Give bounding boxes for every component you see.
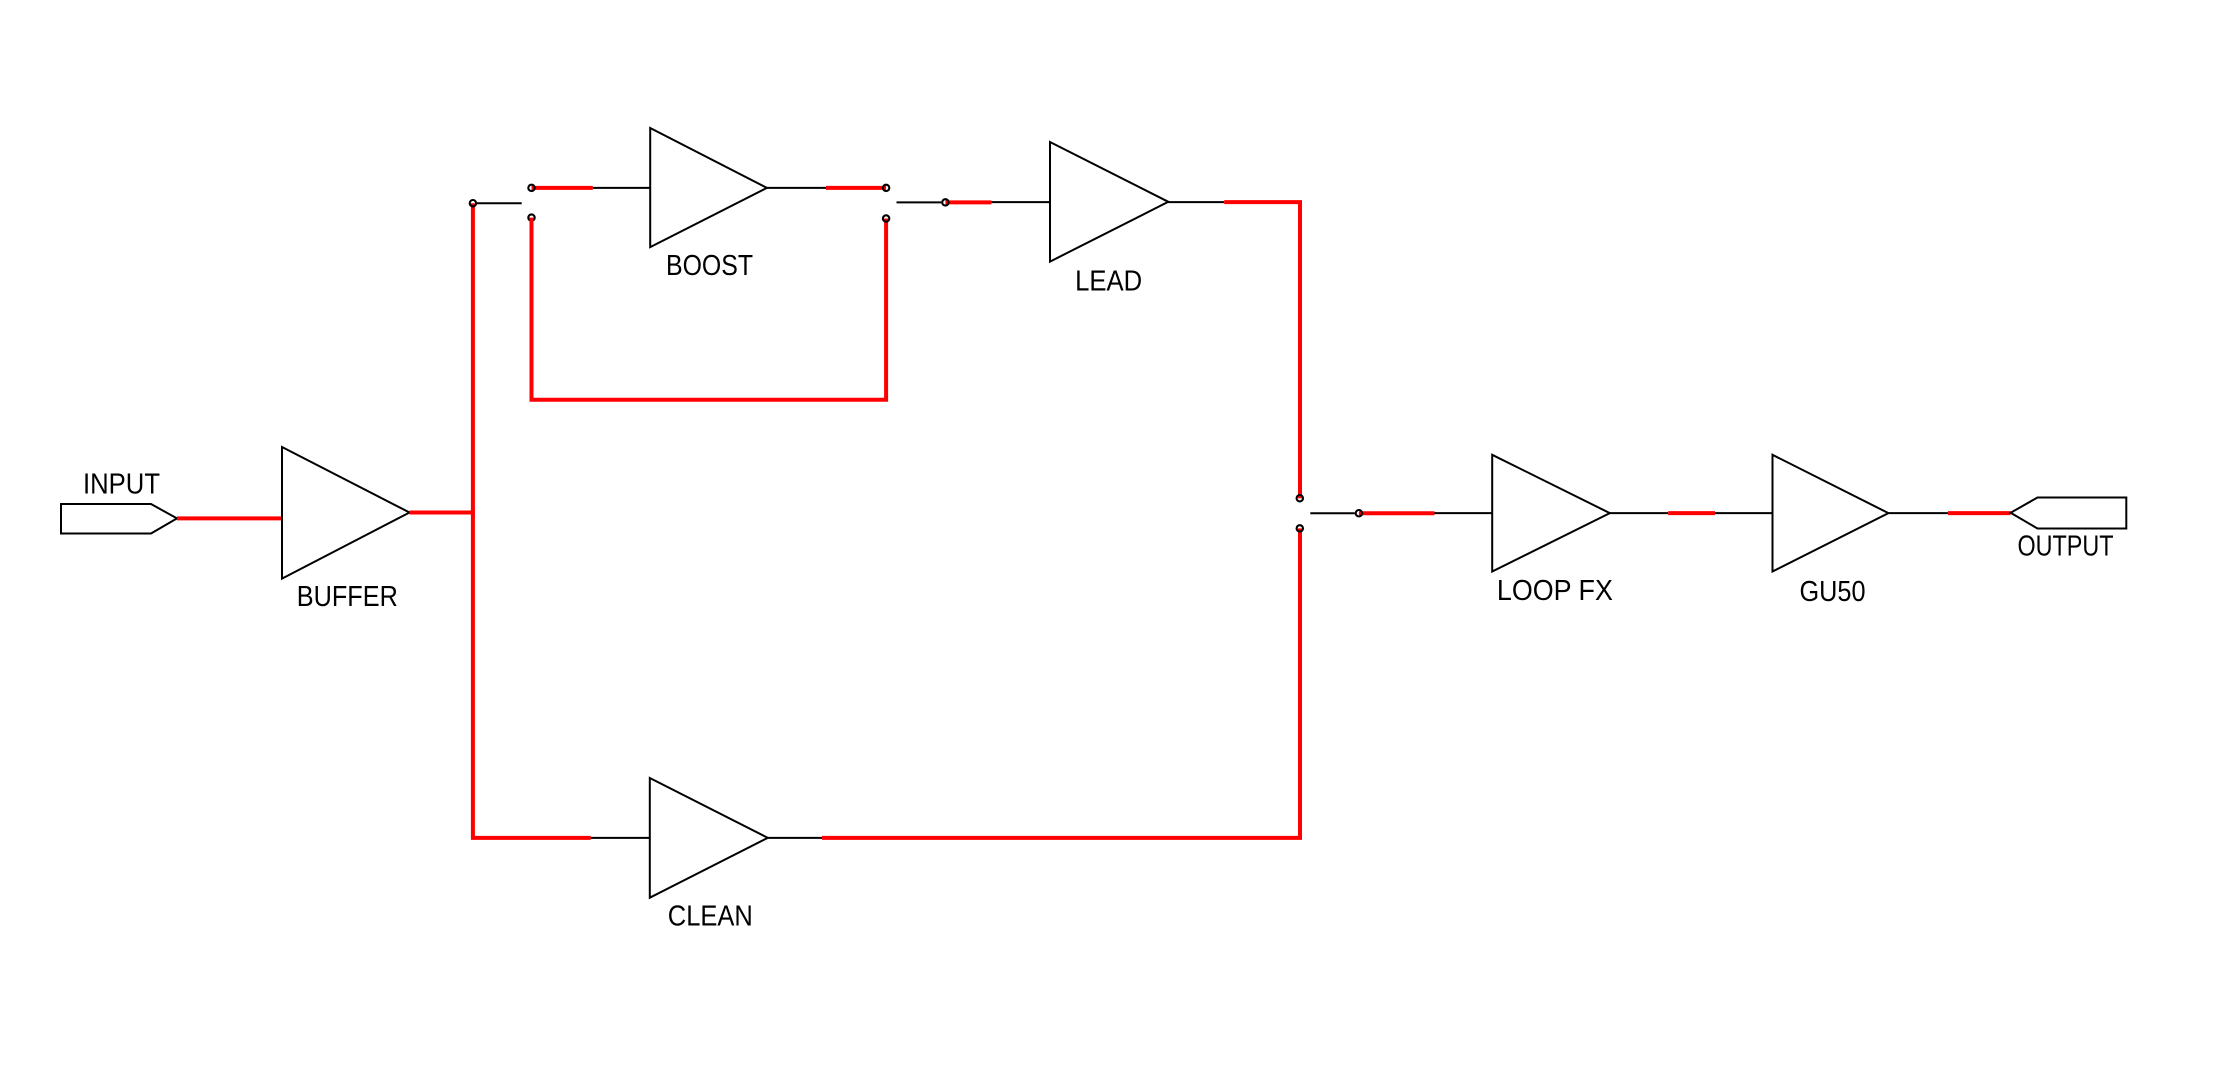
wire bypass loop (red): [532, 218, 887, 400]
amp LEAD: [1050, 142, 1168, 262]
svg-text:OUTPUT: OUTPUT: [2018, 531, 2114, 563]
switch S1 contact lower: [528, 214, 534, 220]
wire bus vertical + bottom-left segment (red): [473, 203, 591, 838]
amp GU50: [1773, 455, 1889, 572]
wire S2 blade (black): [897, 201, 942, 203]
wire boost output (black): [767, 187, 826, 189]
svg-text:BUFFER: BUFFER: [297, 581, 398, 613]
wire S1 upper contact to boost (red): [532, 186, 593, 190]
switch S3 contact upper: [1297, 495, 1303, 501]
wire S2 common to lead (red): [945, 200, 991, 204]
wire loop fx to gu50 (red): [1668, 511, 1715, 515]
node switch S1 common: [470, 200, 476, 206]
output connector OUTPUT: [2011, 498, 2127, 529]
wire boost input (black): [593, 187, 650, 189]
wire loop fx output (black): [1610, 512, 1668, 514]
switch S3 contact lower: [1297, 525, 1303, 531]
wire clean input (black): [591, 837, 650, 839]
amp BOOST: [650, 128, 767, 247]
wire lead output (black): [1168, 201, 1224, 203]
wire lead input (black): [991, 201, 1050, 203]
wire gu50 output (black): [1888, 512, 1948, 514]
svg-text:BOOST: BOOST: [666, 250, 753, 282]
wire S3 blade (black): [1310, 512, 1355, 514]
wire S3 common to loop fx (red): [1359, 511, 1435, 515]
svg-text:INPUT: INPUT: [83, 469, 160, 501]
node switch S3 common: [1356, 510, 1362, 516]
svg-text:GU50: GU50: [1800, 576, 1866, 608]
wire buffer output to bus (red): [410, 511, 475, 515]
svg-text:LOOP FX: LOOP FX: [1497, 575, 1613, 607]
wire switch S1 common stub (black): [477, 202, 522, 204]
svg-text:CLEAN: CLEAN: [668, 900, 753, 932]
switch S1 contact upper: [528, 185, 534, 191]
wire loop fx input (black): [1435, 512, 1493, 514]
switch S2 contact lower: [883, 215, 889, 221]
wire input to buffer (red): [177, 516, 283, 520]
wire lead output to S3 upper contact (red): [1224, 202, 1300, 498]
wire clean output to S3 lower contact (red): [822, 528, 1300, 838]
node switch S2 common: [942, 199, 948, 205]
amp CLEAN: [650, 778, 768, 898]
wire boost output to S2 upper contact (red): [826, 186, 886, 190]
wire gu50 to output connector (red): [1948, 511, 2011, 515]
wire gu50 input (black): [1715, 512, 1773, 514]
wire clean output (black): [768, 837, 822, 839]
svg-text:LEAD: LEAD: [1075, 265, 1142, 297]
amp LOOP FX: [1492, 455, 1610, 572]
switch S2 contact upper: [883, 185, 889, 191]
amp BUFFER: [282, 447, 410, 579]
input connector INPUT: [61, 504, 177, 534]
